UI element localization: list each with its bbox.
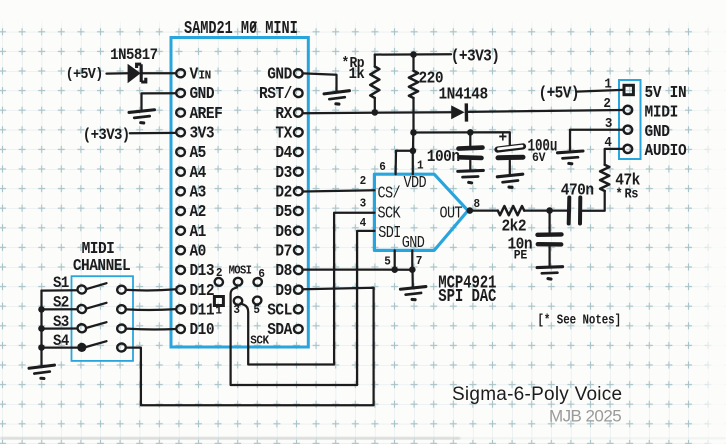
- svg-text:IN: IN: [199, 68, 212, 83]
- svg-text:1N5817: 1N5817: [110, 47, 157, 64]
- svg-text:S3: S3: [53, 314, 69, 331]
- svg-text:CS/: CS/: [378, 185, 401, 202]
- svg-text:Sigma-6-Poly Voice: Sigma-6-Poly Voice: [452, 384, 622, 405]
- svg-text:3: 3: [605, 115, 613, 131]
- svg-text:(+3V3): (+3V3): [83, 128, 130, 145]
- svg-text:7: 7: [416, 253, 423, 268]
- svg-text:SDA: SDA: [267, 320, 293, 339]
- svg-text:A4: A4: [190, 163, 207, 182]
- svg-text:A5: A5: [190, 143, 207, 162]
- svg-text:(+3V3): (+3V3): [451, 47, 500, 66]
- svg-text:S1: S1: [53, 276, 69, 293]
- svg-text:GND: GND: [267, 65, 292, 84]
- svg-text:SPI DAC: SPI DAC: [438, 285, 496, 306]
- svg-text:AREF: AREF: [190, 104, 223, 123]
- svg-text:1: 1: [417, 158, 424, 173]
- svg-text:1: 1: [215, 303, 222, 318]
- svg-text:2: 2: [360, 173, 367, 188]
- svg-text:6: 6: [379, 159, 386, 174]
- svg-text:CHANNEL: CHANNEL: [73, 256, 131, 275]
- svg-text:A2: A2: [190, 202, 207, 221]
- svg-text:D11: D11: [190, 301, 215, 320]
- svg-text:D13: D13: [190, 261, 215, 280]
- svg-text:D2: D2: [275, 183, 292, 202]
- svg-text:(+5V): (+5V): [66, 66, 103, 83]
- svg-text:+: +: [499, 128, 507, 147]
- svg-text:4: 4: [604, 134, 612, 150]
- svg-text:RX: RX: [275, 104, 293, 123]
- svg-text:S2: S2: [53, 295, 69, 312]
- svg-text:D8: D8: [275, 261, 292, 280]
- svg-text:OUT: OUT: [440, 206, 463, 223]
- svg-text:D10: D10: [190, 320, 215, 339]
- svg-text:5: 5: [253, 302, 260, 317]
- svg-text:1k: 1k: [349, 66, 365, 83]
- svg-text:MOSI: MOSI: [229, 265, 252, 278]
- svg-text:S4: S4: [53, 333, 69, 350]
- svg-text:V: V: [190, 65, 199, 84]
- svg-text:D12: D12: [190, 281, 215, 300]
- svg-text:*: *: [616, 186, 623, 202]
- svg-text:3: 3: [360, 196, 367, 211]
- svg-text:D9: D9: [275, 281, 292, 300]
- svg-text:SCL: SCL: [267, 301, 292, 320]
- svg-text:2: 2: [216, 265, 223, 280]
- svg-text:3: 3: [233, 302, 240, 317]
- svg-text:GND: GND: [645, 122, 670, 141]
- svg-text:TX: TX: [275, 124, 293, 143]
- svg-text:SAMD21 M0 MINI: SAMD21 M0 MINI: [184, 17, 298, 39]
- svg-text:A0: A0: [190, 242, 207, 261]
- svg-text:GND: GND: [402, 235, 425, 252]
- svg-text:D5: D5: [275, 202, 292, 221]
- svg-text:3V3: 3V3: [190, 124, 215, 143]
- svg-text:4: 4: [360, 215, 367, 230]
- svg-text:MJB 2025: MJB 2025: [549, 407, 621, 426]
- svg-text:1: 1: [604, 76, 612, 92]
- svg-text:SDI: SDI: [378, 225, 401, 242]
- svg-text:(+5V): (+5V): [539, 84, 579, 103]
- svg-text:5V IN: 5V IN: [645, 83, 687, 102]
- svg-text:AUDIO: AUDIO: [645, 141, 687, 160]
- svg-text:5: 5: [384, 254, 391, 269]
- svg-text:2k2: 2k2: [501, 217, 526, 236]
- svg-text:A3: A3: [190, 183, 207, 202]
- svg-text:D3: D3: [275, 163, 292, 182]
- svg-text:1N4148: 1N4148: [439, 85, 488, 104]
- svg-text:6: 6: [258, 266, 265, 281]
- svg-text:2: 2: [603, 96, 611, 112]
- svg-text:MIDI: MIDI: [645, 103, 679, 122]
- svg-text:SCK: SCK: [378, 206, 401, 223]
- svg-text:D6: D6: [275, 222, 292, 241]
- svg-text:D4: D4: [275, 143, 292, 162]
- svg-text:470n: 470n: [561, 181, 594, 200]
- svg-text:8: 8: [474, 196, 481, 211]
- svg-text:VDD: VDD: [404, 175, 427, 192]
- svg-text:[* See Notes]: [* See Notes]: [538, 312, 622, 328]
- svg-text:Rs: Rs: [624, 186, 638, 202]
- svg-text:PE: PE: [514, 248, 527, 263]
- svg-text:D7: D7: [275, 242, 292, 261]
- svg-text:RST/: RST/: [259, 84, 292, 103]
- svg-text:6V: 6V: [532, 150, 546, 165]
- svg-text:SCK: SCK: [250, 333, 269, 348]
- svg-text:GND: GND: [190, 84, 215, 103]
- svg-text:100n: 100n: [427, 147, 460, 166]
- svg-text:A1: A1: [190, 222, 207, 241]
